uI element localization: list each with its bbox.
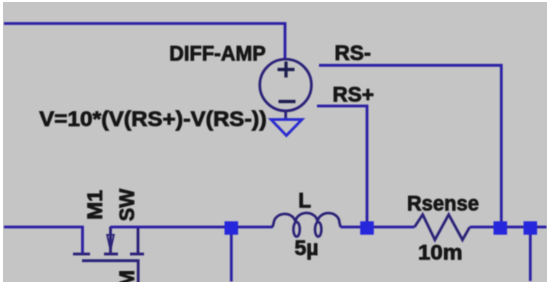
- wire resistor to right edge: [470, 226, 547, 229]
- inductor L: [273, 213, 341, 237]
- source lead: [137, 227, 140, 254]
- op-amp behavioral source U1 DIFF-AMP circle body: [260, 59, 312, 111]
- svg-text:DIFF-AMP: DIFF-AMP: [169, 43, 265, 66]
- channel bar source: [130, 253, 144, 256]
- wire net RS-: [319, 65, 501, 224]
- plus sign inside source: [278, 62, 295, 78]
- wire top rail to diff-amp: [4, 24, 285, 61]
- wire left rail to M1 drain: [4, 227, 83, 254]
- svg-text:L: L: [298, 189, 311, 212]
- svg-text:10m: 10m: [418, 242, 463, 265]
- wire down from far right junction: [529, 228, 532, 281]
- wire down from node SW junction: [230, 228, 233, 282]
- wire net RS+: [317, 106, 367, 224]
- svg-text:5µ: 5µ: [295, 237, 319, 260]
- minus sign inside source: [279, 100, 296, 103]
- ground: [271, 120, 302, 136]
- channel bar body: [104, 253, 118, 256]
- svg-text:V=10*(V(RS+)-V(RS-)): V=10*(V(RS+)-V(RS-)): [39, 108, 266, 131]
- resistor Rsense: [415, 215, 470, 240]
- wire inductor to resistor: [341, 226, 415, 229]
- body arrow: [107, 235, 114, 251]
- junction node RS-: [494, 221, 508, 234]
- wire stub source bottom to ground: [284, 110, 287, 120]
- gate bar and gate lead: [82, 261, 138, 283]
- junction node SW-inductor: [225, 221, 239, 234]
- svg-text:SW: SW: [116, 189, 139, 222]
- channel bar drain: [73, 253, 90, 256]
- white border frame: [0, 0, 554, 2]
- svg-text:M1: M1: [84, 189, 107, 219]
- body lead: [109, 227, 112, 254]
- wire main rail M1 source to inductor: [111, 226, 273, 229]
- svg-text:Rsense: Rsense: [407, 193, 479, 216]
- junction node output: [524, 221, 538, 234]
- junction node RS+: [360, 221, 374, 234]
- svg-text:RS+: RS+: [333, 84, 375, 107]
- transistor M1 NMOS rotated: [73, 227, 144, 283]
- svg-text:RS-: RS-: [335, 42, 372, 65]
